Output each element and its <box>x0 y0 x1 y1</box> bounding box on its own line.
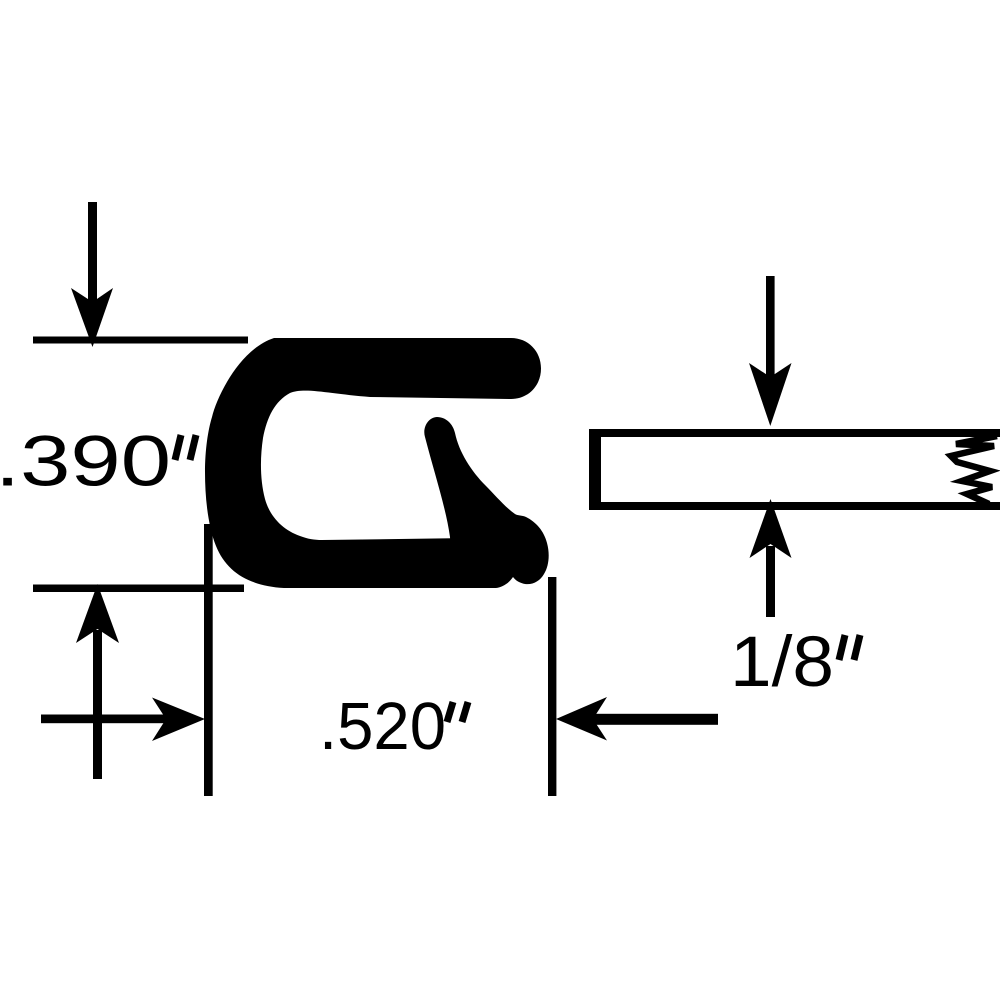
svg-text:.390: .390 <box>0 423 171 502</box>
extension line vertical right (.520) <box>548 577 556 796</box>
dimension arrow up (panel bottom) : shaft <box>766 546 775 617</box>
dimension arrow up (panel bottom, 1/8) : barbed head <box>750 499 792 558</box>
double prime for .520 <box>447 702 453 722</box>
dimension line top (.390 upper extent) <box>33 337 248 344</box>
extension line vertical left (.520) <box>204 524 213 796</box>
svg-text:.520: .520 <box>319 689 446 764</box>
dimension arrow right-pointing : barbed head <box>152 698 205 742</box>
dimension arrow down (panel top, 1/8) : shaft <box>766 276 775 379</box>
dimension arrow down (top left, .390 upper) : shaft <box>88 202 97 310</box>
double prime for .390 <box>175 435 181 460</box>
panel (1/8 sheet) top edge <box>589 429 1000 437</box>
dimension arrow down (top left) : barbed head <box>71 288 113 347</box>
svg-text:1/8: 1/8 <box>730 623 834 702</box>
panel jagged break edge <box>951 436 997 504</box>
trim seal profile outer C-shell <box>205 338 541 588</box>
dimension line bottom (.390 lower extent) <box>33 585 244 593</box>
double prime for 1/8 <box>839 635 845 660</box>
trim seal gripper tongue and bulb <box>424 417 548 588</box>
dimension arrow left-pointing : barbed head <box>556 697 607 741</box>
dimension arrow up (bottom left) : shaft <box>93 630 102 779</box>
dimension arrow up (bottom left, .390 lower) : barbed head <box>76 584 119 643</box>
dimension arrow right-pointing (.520 left) : shaft <box>41 715 168 724</box>
panel bottom edge <box>589 502 1000 510</box>
dimension arrow down (panel top) : barbed head <box>749 363 792 426</box>
dimension arrow left-pointing (.520 right) : shaft <box>591 714 718 725</box>
panel left edge <box>589 429 601 510</box>
